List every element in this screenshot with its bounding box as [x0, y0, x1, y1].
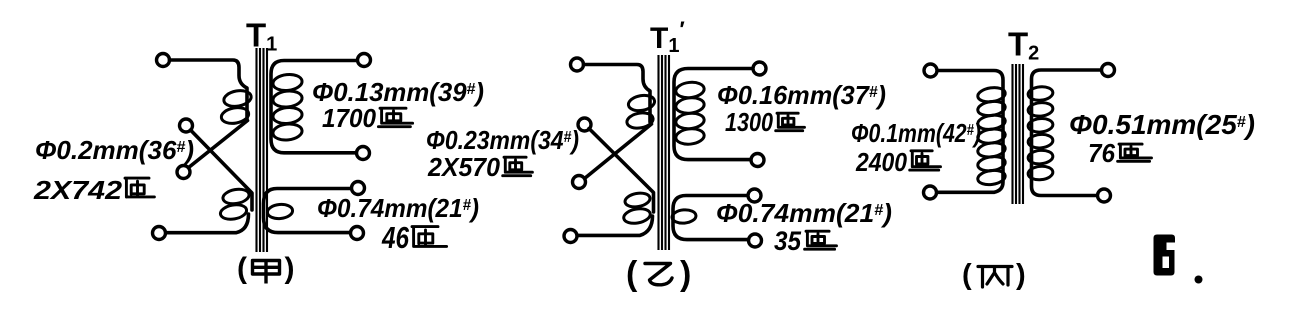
terminal (bottom-left, T1' primary)	[564, 230, 577, 243]
transformer T2 core	[1013, 64, 1024, 204]
value label T1 secondary 2 turns 46	[381, 220, 409, 255]
terminal (middle-left upper, T1 primary center tap)	[180, 119, 193, 132]
wire bracket of T2 primary (left) with top and bottom leads	[937, 71, 1004, 193]
T1 secondary 2 winding (1 turn)	[267, 203, 293, 219]
CJK glyph ZA (turns unit) after 1700	[378, 108, 412, 127]
value label T1' secondary 1 turns 1300	[725, 107, 773, 137]
svg-text:46: 46	[381, 220, 409, 255]
svg-text:(: (	[626, 255, 638, 293]
wire from T1' primary upper winding to lower-middle terminal (crossover)	[585, 124, 652, 179]
T1 primary upper winding (2 turns)	[220, 89, 252, 126]
CJK glyph ZA (turns unit) after 35	[805, 231, 837, 249]
caption CJK glyph YI (second)	[645, 264, 672, 285]
wire from upper-middle terminal to T1' primary lower winding (crossover)	[589, 129, 654, 213]
svg-text:Φ0.74mm(21#): Φ0.74mm(21#)	[317, 193, 479, 223]
terminal (T1 secondary 1 bottom)	[357, 147, 370, 160]
svg-text:Φ0.74mm(21#): Φ0.74mm(21#)	[716, 198, 892, 228]
T1' primary lower winding (2 turns)	[623, 191, 652, 225]
figure number period	[1195, 276, 1203, 284]
svg-text:): )	[1016, 259, 1026, 291]
terminal (middle-left upper, T1' center tap)	[578, 118, 591, 131]
caption CJK glyph BING (third)	[978, 267, 1012, 288]
svg-text:Φ0.2mm(36#): Φ0.2mm(36#)	[35, 135, 194, 165]
value label T1' secondary 2 turns 35	[774, 226, 802, 256]
svg-text:(: (	[237, 252, 247, 285]
svg-text:2X742: 2X742	[33, 175, 123, 205]
terminal (top-left, T2 primary)	[924, 64, 937, 77]
caption CJK glyph JIA (first)	[253, 261, 280, 284]
value label T1' secondary 2 wire gauge	[716, 198, 892, 228]
terminal (bottom-left, T1 primary)	[153, 227, 166, 240]
svg-text:(: (	[962, 259, 972, 291]
svg-text:Φ0.16mm(37#): Φ0.16mm(37#)	[717, 80, 886, 110]
terminal (middle-left lower, T1 primary center tap)	[177, 166, 190, 179]
terminal (top-left, T1' primary)	[571, 58, 584, 71]
svg-text:1700: 1700	[322, 103, 377, 133]
terminal (bottom-right, T2 secondary)	[1098, 189, 1111, 202]
svg-text:2400: 2400	[855, 147, 907, 177]
value label T1' secondary 1 wire gauge	[717, 80, 886, 110]
wire bracket of T1' secondary 1 (right top)	[674, 69, 753, 160]
terminal (T1' secondary 2 bottom)	[749, 234, 762, 247]
CJK glyph ZA (turns unit) after 1300	[776, 113, 805, 131]
caption close paren (yi)	[680, 255, 691, 293]
caption open paren (yi)	[626, 255, 638, 293]
wire from T1 primary lower winding to bottom-left terminal	[166, 214, 249, 233]
terminal (T1' secondary 1 top)	[753, 62, 766, 75]
T2 primary winding (7 turns)	[977, 86, 1006, 186]
T2 secondary winding (6 turns)	[1028, 86, 1054, 181]
value label T1 primary wire gauge	[35, 135, 194, 165]
value label T2 secondary turns 76	[1088, 138, 1116, 168]
wire bracket of T1' secondary 2 (right bottom)	[673, 196, 749, 240]
value label T1 secondary 1 turns 1700	[322, 103, 377, 133]
svg-text:): )	[680, 255, 691, 293]
wire from top-left terminal to T1 primary upper winding	[170, 60, 248, 119]
CJK glyph ZA (turns unit) after 2400	[910, 151, 941, 170]
terminal (T1 secondary 2 bottom)	[351, 227, 364, 240]
value label T1' primary wire gauge	[426, 125, 579, 155]
figure number 6	[1154, 235, 1176, 276]
value label T2 secondary wire gauge	[1069, 109, 1255, 140]
CJK glyph ZA (turns unit) after 46	[412, 227, 447, 247]
value label T1 secondary 2 wire gauge	[317, 193, 479, 223]
wire from top-left terminal to T1' primary upper winding	[584, 65, 651, 123]
svg-text:Φ0.1mm(42#): Φ0.1mm(42#)	[851, 118, 981, 148]
caption close paren (bing)	[1016, 259, 1026, 291]
terminal (T1' secondary 1 bottom)	[751, 154, 764, 167]
caption close paren (jia)	[285, 252, 295, 285]
wire bracket of T1 secondary 2 (right bottom)	[264, 189, 352, 233]
T1 primary lower winding (2 turns)	[219, 187, 250, 221]
svg-text:35: 35	[774, 226, 802, 256]
T1' secondary 2 winding (1 turn)	[671, 209, 696, 224]
svg-text:): )	[285, 252, 295, 285]
T1 secondary 1 winding (4 turns)	[272, 73, 303, 141]
caption open paren (bing)	[962, 259, 972, 291]
value label T1' primary turns 2X570	[427, 152, 500, 182]
svg-text:1300: 1300	[725, 107, 773, 137]
transformer T2 designator label	[1008, 26, 1039, 65]
value label T1 primary turns 2X742	[33, 175, 123, 205]
terminal (T1 secondary 2 top)	[352, 182, 365, 195]
T1' secondary 1 winding (4 turns)	[675, 81, 705, 146]
transformer T1 designator label T1	[246, 17, 277, 56]
transformer T1' core	[659, 55, 670, 250]
CJK glyph ZA (turns unit) after 2X570	[503, 157, 533, 176]
svg-text:Φ0.51mm(25#): Φ0.51mm(25#)	[1069, 109, 1255, 140]
value label T2 primary wire gauge	[851, 118, 981, 148]
svg-text:76: 76	[1088, 138, 1116, 168]
T1' primary upper winding (2 turns)	[626, 93, 656, 130]
transformer T1' designator label	[650, 17, 685, 57]
terminal (bottom-left, T2 primary)	[924, 186, 937, 199]
value label T1 secondary 1 wire gauge	[312, 77, 484, 107]
wire from T1 primary upper winding to lower-middle terminal (crossover)	[188, 121, 248, 169]
wire bracket of T1 secondary 1 (right top) with terminals	[271, 61, 358, 153]
terminal (top-left, T1 primary)	[157, 54, 170, 67]
svg-text:Φ0.23mm(34#): Φ0.23mm(34#)	[426, 125, 579, 155]
value label T2 primary turns 2400	[855, 147, 907, 177]
transformer T1 core	[257, 48, 268, 252]
wire from upper-middle terminal to T1 primary lower winding (crossover)	[191, 130, 253, 210]
caption open paren (jia)	[237, 252, 247, 285]
wire from T1' primary lower winding to bottom-left terminal	[578, 216, 653, 235]
terminal (middle-left lower, T1' center tap)	[573, 176, 586, 189]
wire bracket of T2 secondary (right) with top and bottom leads	[1032, 70, 1102, 196]
CJK glyph ZA (turns unit) after 76	[1118, 144, 1152, 161]
terminal (T1 secondary 1 top)	[358, 54, 371, 67]
CJK glyph ZA (turns unit) after 2X742	[125, 178, 154, 197]
terminal (T1' secondary 2 top)	[748, 189, 761, 202]
svg-text:2X570: 2X570	[427, 152, 500, 182]
terminal (top-right, T2 secondary)	[1102, 64, 1115, 77]
